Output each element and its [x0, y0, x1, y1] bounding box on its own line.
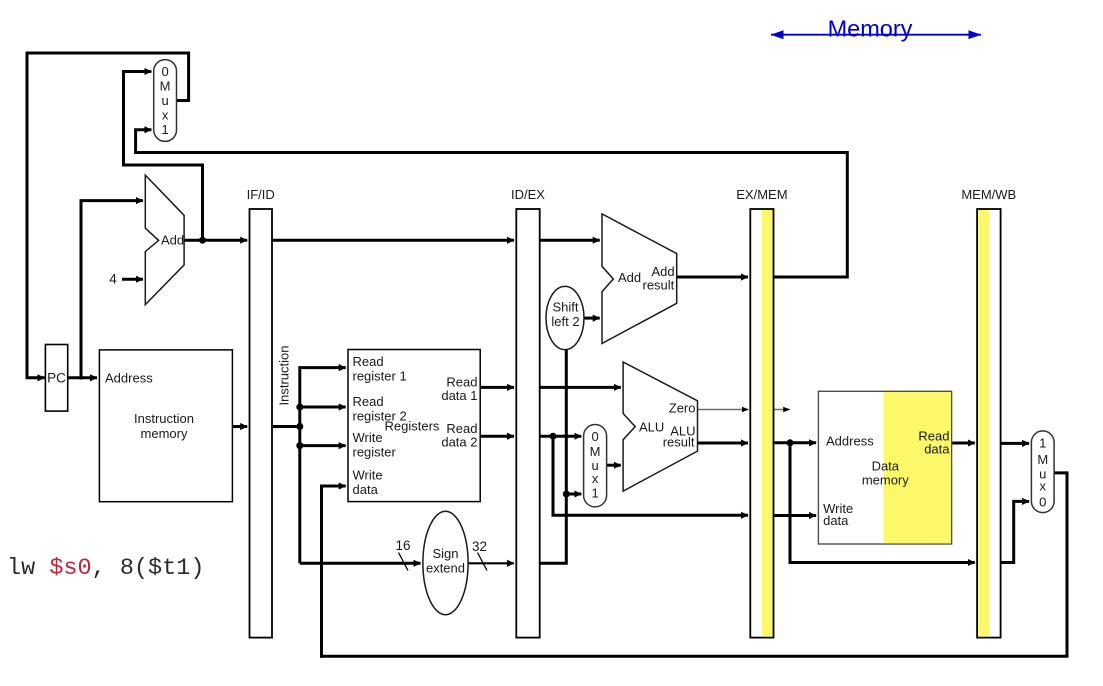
- svg-text:Read: Read: [353, 354, 384, 369]
- svg-text:0: 0: [591, 429, 598, 444]
- wire bus to sign extend: [300, 562, 421, 565]
- wire Zero stub after EX/MEM (thin): [774, 409, 790, 411]
- instruction memory: [99, 350, 232, 502]
- wire PC junction up to Add top input: [81, 201, 143, 380]
- svg-text:left 2: left 2: [551, 314, 579, 329]
- wire write-back into Write data: [322, 486, 346, 658]
- wire PC+4 up to pc-mux input 0: [124, 72, 203, 241]
- wire ID/EX read data 1 to ALU: [540, 386, 621, 389]
- svg-text:EX/MEM: EX/MEM: [736, 187, 787, 202]
- svg-text:PC: PC: [47, 371, 66, 386]
- svg-text:result: result: [663, 435, 695, 450]
- pipeline register IF/ID: [247, 187, 275, 638]
- data memory: [818, 391, 951, 544]
- svg-text:result: result: [643, 278, 675, 293]
- wire Read data to MEM/WB: [952, 442, 975, 445]
- wire Add output to IF/ID: [184, 239, 247, 242]
- svg-text:Sign: Sign: [432, 546, 458, 561]
- svg-text:MEM/WB: MEM/WB: [961, 187, 1016, 202]
- wire alu-mux out to ALU: [607, 464, 621, 467]
- wire EX/MEM write data to Data memory: [774, 514, 817, 517]
- node PC+4 junction: [199, 237, 206, 244]
- wire Read data 2 to ID/EX: [480, 435, 514, 438]
- svg-text:register 1: register 1: [353, 369, 407, 384]
- node address split: [787, 439, 794, 446]
- shift left 2: [546, 286, 584, 349]
- svg-text:Registers: Registers: [385, 419, 440, 434]
- svg-text:4: 4: [109, 272, 117, 287]
- wire ALU Zero to EX/MEM (thin): [698, 409, 749, 411]
- svg-text:M: M: [1037, 452, 1048, 467]
- wire to Read register 2: [300, 406, 346, 409]
- wire MEM/WB read data to wb-mux 1: [1001, 442, 1030, 445]
- node bus read reg2: [296, 404, 303, 411]
- wire ALU result to EX/MEM: [698, 442, 749, 445]
- wire PC feedback (mux out, up, across top, down left to PC): [27, 53, 189, 378]
- svg-text:IF/ID: IF/ID: [247, 187, 275, 202]
- pipeline register ID/EX: [511, 187, 545, 638]
- stage banner Memory: [771, 16, 981, 42]
- wire shift left 2 to branch Add: [584, 317, 600, 320]
- node bus instruction in: [296, 423, 303, 430]
- svg-text:Read: Read: [353, 394, 384, 409]
- svg-text:16: 16: [395, 538, 410, 553]
- svg-text:1: 1: [1039, 436, 1046, 451]
- svg-text:data 1: data 1: [441, 388, 477, 403]
- wire ID/EX to branch Add top input: [540, 239, 600, 242]
- svg-text:ALU: ALU: [639, 420, 664, 435]
- wire immediate up to shift left 2: [540, 350, 567, 564]
- wire read data 2 down to EX/MEM write data: [553, 436, 748, 515]
- pipeline register MEM/WB (left half highlighted): [961, 187, 1016, 638]
- wire EX/MEM to Data memory Address: [774, 441, 817, 444]
- adder Add (PC+4): [145, 175, 184, 305]
- wire to Write register: [300, 444, 346, 447]
- register PC: [45, 345, 67, 412]
- svg-text:32: 32: [472, 539, 487, 554]
- svg-text:x: x: [162, 108, 169, 123]
- svg-text:Add: Add: [618, 270, 641, 285]
- wire branch Add result to EX/MEM: [677, 276, 748, 279]
- sign extend: [423, 511, 468, 614]
- svg-text:register: register: [353, 445, 397, 460]
- svg-text:memory: memory: [141, 426, 188, 441]
- ALU: [623, 362, 697, 491]
- svg-text:data 2: data 2: [441, 435, 477, 450]
- svg-text:Shift: Shift: [552, 300, 578, 315]
- svg-text:0: 0: [161, 64, 168, 79]
- svg-text:Data: Data: [872, 459, 900, 474]
- wire IF/ID to ID/EX (PC+4): [272, 239, 514, 242]
- wire ALU result bypass to MEM/WB: [790, 443, 975, 563]
- svg-text:data: data: [823, 513, 849, 528]
- svg-text:Memory: Memory: [828, 16, 913, 42]
- wire instruction memory to IF/ID: [232, 425, 247, 428]
- wire IF/ID instruction to bus: [272, 425, 300, 428]
- svg-text:Address: Address: [105, 371, 153, 386]
- svg-text:M: M: [160, 79, 171, 94]
- svg-text:memory: memory: [862, 473, 909, 488]
- wire instruction bus vertical: [300, 368, 346, 564]
- wire wb-mux out loop to bottom: [322, 473, 1068, 656]
- wire 4 into Add: [122, 278, 143, 281]
- node bus write reg: [296, 442, 303, 449]
- svg-text:M: M: [590, 444, 601, 459]
- pc-mux (0 Mux 1): [154, 60, 177, 142]
- svg-text:Address: Address: [826, 434, 874, 449]
- svg-text:Write: Write: [353, 430, 383, 445]
- svg-text:data: data: [353, 482, 379, 497]
- svg-text:extend: extend: [426, 561, 465, 576]
- wire MEM/WB ALU result to wb-mux 0: [1001, 501, 1030, 562]
- svg-text:ID/EX: ID/EX: [511, 187, 545, 202]
- svg-text:Instruction: Instruction: [134, 411, 194, 426]
- node immediate to alu-mux: [563, 491, 570, 498]
- pipeline register EX/MEM (right half highlighted): [736, 187, 787, 638]
- wire Read data 1 to ID/EX: [480, 386, 514, 389]
- svg-text:Add: Add: [161, 233, 184, 248]
- wire PC to instruction memory Address: [68, 376, 97, 379]
- node read data 2 split: [550, 433, 557, 440]
- svg-text:lw $s0, 8($t1): lw $s0, 8($t1): [7, 555, 204, 582]
- wire immediate to alu-mux 1: [566, 493, 581, 496]
- registers file: [348, 350, 480, 502]
- wire branch target from EX/MEM back to pc-mux input 1: [136, 130, 848, 277]
- svg-text:1: 1: [591, 486, 598, 501]
- svg-text:Zero: Zero: [669, 401, 696, 416]
- adder Add result (branch): [602, 214, 677, 344]
- svg-text:x: x: [1040, 479, 1047, 494]
- wb-mux (1 Mux 0): [1031, 431, 1054, 513]
- svg-text:Write: Write: [353, 468, 383, 483]
- svg-text:x: x: [592, 471, 599, 486]
- svg-text:Instruction: Instruction: [277, 346, 292, 406]
- svg-text:1: 1: [161, 122, 168, 137]
- svg-text:0: 0: [1039, 495, 1046, 510]
- wire sign extend to ID/EX: [468, 562, 514, 564]
- wire ID/EX read data 2 to alu-mux 0: [540, 435, 582, 438]
- svg-text:data: data: [924, 442, 950, 457]
- svg-text:u: u: [161, 93, 168, 108]
- alu-mux (0 Mux 1): [584, 425, 607, 507]
